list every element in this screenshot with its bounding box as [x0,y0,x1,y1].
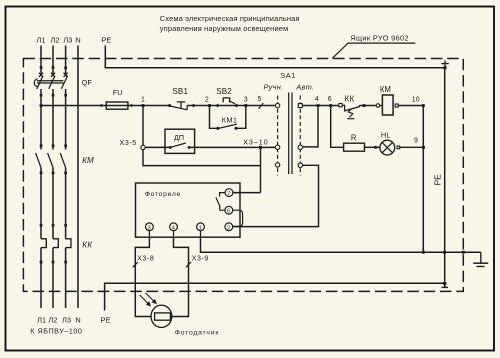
photorelay pin 2 [225,223,233,231]
svg-text:2: 2 [227,225,230,231]
wire node 6 down to R [331,106,344,148]
svg-text:КМ1: КМ1 [222,115,237,124]
ground symbol [473,252,488,266]
svg-text:3: 3 [244,96,248,103]
contact KM1 (aux, parallel with SB2) [210,106,246,131]
junction PE bottom bond [442,282,449,287]
svg-text:4: 4 [315,96,319,103]
wire control line from L1 [41,105,170,107]
photorelay box [136,183,241,237]
wire phase L1 vertical [40,46,42,309]
svg-text:Фотореле: Фотореле [145,191,181,198]
contactor coil KM [376,85,423,115]
svg-text:Ящик РУО 9602: Ящик РУО 9602 [350,34,409,43]
junction dot L1 tap [40,104,43,107]
svg-text:КМ: КМ [82,156,94,165]
thermal relay contact KK [339,95,360,119]
junction PE-enclosure bond (top right) [441,60,449,69]
svg-text:Л1: Л1 [36,36,45,45]
circuit breaker QF (3-pole) [34,73,67,89]
resistor R [344,134,380,152]
node labels Л1 Л2 Л3 N (bottom) [37,316,81,325]
wire DP to X3-10 to SA1 [195,146,276,148]
wire PE top (down then right to enclosure bond) [105,46,445,68]
photorelay pin 4 [170,223,178,237]
pushbutton SB2 (NO start) [216,87,239,107]
svg-text:К ЯБПВУ–100: К ЯБПВУ–100 [30,327,82,336]
wire SA1 auto to KK [302,105,339,107]
pushbutton SB1 (NC stop) [167,87,195,110]
svg-text:10: 10 [412,96,420,103]
junction entry dots on L1 L2 L3 [40,66,67,69]
svg-text:6: 6 [328,96,332,103]
label: Ящик РУО 9602 [332,34,415,59]
svg-text:5: 5 [258,96,262,103]
svg-text:Ручн.: Ручн. [264,82,284,91]
light arrows into sensor [140,293,156,306]
wire PE bottom [105,283,445,310]
wire phase L2 vertical [52,46,54,309]
svg-text:РЕ: РЕ [101,316,111,325]
wire neutral N vertical [77,46,79,309]
photorelay pin 7 [225,189,233,197]
svg-text:Х3–10: Х3–10 [243,140,269,147]
photo sensor (photoresistor) [151,305,172,327]
enclosure dashed box (Ящик РУО 9602 boundary) [23,59,463,292]
thermal relay KK heaters (3-pole) [41,239,71,248]
QF lower terminal dots [40,94,67,97]
selector switch SA1 [264,71,315,176]
wire X3-10 down to photorelay pin 7 [260,147,262,192]
svg-text:1: 1 [199,225,202,231]
svg-text:Схема электрическая принципи: Схема электрическая принципиальная [160,14,300,23]
remote contact DP (in box) [165,129,195,153]
node labels Л1 Л2 Л3 N (top) [36,36,80,45]
svg-text:Х3-9: Х3-9 [192,256,209,263]
svg-text:Х3-5: Х3-5 [120,140,137,147]
svg-text:N: N [75,36,80,45]
svg-text:9: 9 [414,137,418,144]
svg-text:КК: КК [82,241,93,250]
wire pin3 to X3-8 and photo sensor [135,237,151,316]
svg-text:3: 3 [148,225,151,231]
lamp HL [380,131,424,155]
svg-text:Фотодатчик: Фотодатчик [175,330,219,337]
terminal X3-9 [186,256,209,268]
terminal X3-8 [133,256,155,268]
svg-text:HL: HL [381,131,391,140]
svg-text:R: R [351,134,357,143]
svg-text:N: N [75,316,80,325]
svg-text:6: 6 [227,209,230,215]
svg-text:SB1: SB1 [172,87,188,96]
svg-text:Л3: Л3 [62,316,71,325]
photorelay link 6-2 bracket [233,210,243,226]
svg-text:Л3: Л3 [63,36,72,45]
junction dots on neutral bus [422,251,425,254]
photorelay pin 3 [146,223,154,237]
svg-text:Л1: Л1 [37,316,46,325]
svg-text:QF: QF [82,78,93,87]
wire SA1 auto bottom contact to photorelay pin 2 [233,165,319,226]
wire KK to KM coil [359,105,376,107]
svg-text:Л2: Л2 [48,316,57,325]
wire main line SB1 to SA1 [187,105,275,107]
wire node 4 to SA1 auto mid contact [303,106,319,147]
photorelay pin 6 [225,206,233,214]
svg-text:SB2: SB2 [216,87,232,96]
wire phase L3 vertical [65,46,67,309]
svg-text:РЕ: РЕ [101,36,111,45]
svg-text:КМ: КМ [380,85,391,94]
svg-text:7: 7 [227,191,230,197]
svg-text:управления наружным освещением: управления наружным освещением [160,24,289,33]
wire X3-5 to DP box [145,146,194,148]
svg-text:SA1: SA1 [280,71,296,80]
wire pin7 to X3-10 riser [233,192,261,194]
terminal X3-5 [120,106,261,166]
svg-text:ДП: ДП [174,133,184,142]
contactor KM main contacts (3-pole) [36,153,66,168]
svg-text:Л2: Л2 [50,36,59,45]
fuse FU [101,88,133,109]
svg-text:FU: FU [113,88,123,97]
svg-text:КК: КК [345,95,355,104]
wire node10 down to neutral bus [422,106,424,253]
svg-text:Авт.: Авт. [295,82,314,91]
wire pin4 to X3-9 and photo sensor [172,237,189,316]
photorelay pin 1 [197,223,205,237]
photorelay changeover contact 7-6 [216,193,225,211]
svg-text:1: 1 [141,96,145,103]
svg-text:Х3-8: Х3-8 [137,256,154,263]
svg-text:4: 4 [172,225,175,231]
wire PE right vertical [444,68,446,288]
svg-text:2: 2 [205,96,209,103]
wire pin1 to neutral/ground bus [201,237,481,252]
svg-text:PE: PE [433,174,443,186]
